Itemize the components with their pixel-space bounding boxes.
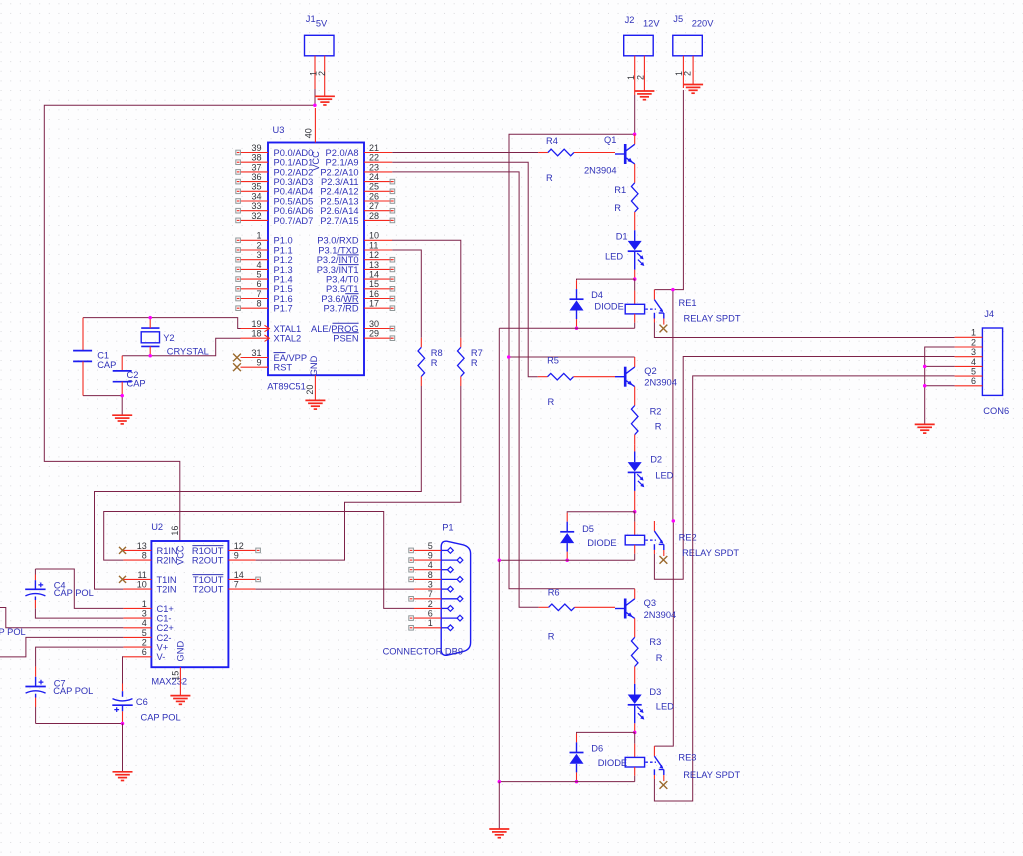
svg-text:C6: C6: [136, 697, 148, 707]
U2 pin 12 R1OUT: [192, 541, 261, 556]
wire node to diode D6: [577, 732, 635, 752]
svg-text:2: 2: [971, 337, 976, 347]
LED D3: [628, 695, 645, 720]
svg-text:7: 7: [234, 580, 239, 590]
svg-text:RE2: RE2: [679, 533, 697, 543]
U2 pin 4 C2+: [123, 618, 173, 633]
U3 pin 6 P1.5: [236, 279, 293, 294]
U3 pin 25 P2.4/A12: [320, 182, 394, 197]
svg-text:20: 20: [305, 385, 315, 395]
svg-text:GND: GND: [176, 641, 186, 662]
svg-text:38: 38: [251, 153, 261, 163]
svg-text:6: 6: [256, 279, 261, 289]
svg-text:DIODE: DIODE: [598, 758, 627, 768]
wire C4 bottom to C1-: [35, 608, 123, 618]
svg-text:12V: 12V: [643, 19, 660, 29]
svg-text:EA/VPP: EA/VPP: [274, 353, 308, 363]
wire 220V rail down to RE2/RE3 commons: [654, 290, 673, 746]
P1 pin 4: [409, 560, 454, 573]
svg-text:29: 29: [369, 329, 379, 339]
svg-text:Y2: Y2: [163, 333, 174, 343]
U3 pin 28 P2.7/A15: [320, 211, 394, 226]
svg-text:R2OUT: R2OUT: [192, 556, 224, 566]
label RE1: [679, 298, 741, 324]
svg-text:J1: J1: [306, 14, 316, 24]
svg-text:CAP: CAP: [127, 379, 146, 389]
resistor R4: [538, 136, 615, 183]
svg-text:5: 5: [971, 367, 976, 377]
svg-text:R3: R3: [649, 637, 661, 647]
svg-text:R2IN: R2IN: [157, 556, 178, 566]
svg-text:P0.2/AD2: P0.2/AD2: [274, 167, 314, 177]
ground at J1 pin 2: [315, 96, 335, 105]
U2 pin 2 V+: [123, 638, 168, 653]
svg-text:P2.2/A10: P2.2/A10: [320, 167, 358, 177]
wire R2 to D2: [634, 444, 636, 462]
ground at J4: [915, 424, 935, 433]
svg-text:P2.0/A8: P2.0/A8: [326, 148, 359, 158]
svg-text:4: 4: [142, 618, 147, 628]
svg-text:22: 22: [369, 153, 379, 163]
svg-text:PSEN: PSEN: [333, 334, 358, 344]
svg-text:RELAY SPDT: RELAY SPDT: [683, 770, 740, 780]
node XTAL2/Y2: [148, 354, 152, 358]
svg-text:14: 14: [234, 570, 244, 580]
svg-text:C1+: C1+: [157, 604, 174, 614]
U3 pin 39 P0.0/AD0: [236, 143, 313, 158]
node D3/coil junction: [633, 731, 637, 735]
J4 pin 2: [955, 337, 983, 347]
svg-text:R: R: [614, 203, 621, 213]
svg-text:RST: RST: [274, 363, 293, 373]
wire gnd rail to bottom ground: [498, 782, 500, 829]
relay RE3 coil: [625, 757, 656, 767]
svg-text:3: 3: [256, 250, 261, 260]
resistor R5: [538, 356, 615, 408]
LED D2: [628, 462, 645, 487]
svg-text:Q2: Q2: [644, 366, 656, 376]
svg-text:15: 15: [171, 671, 181, 681]
U3 pin 32 P0.7/AD7: [236, 211, 313, 226]
op-amp U3 AT89C51 body: [267, 125, 364, 391]
wire P2.2/A10 to R6: [392, 172, 538, 607]
svg-text:V+: V+: [157, 643, 169, 653]
svg-text:25: 25: [369, 182, 379, 192]
U3 pin 22 P2.1/A9: [326, 153, 393, 168]
U2 pin 6 V-: [123, 647, 165, 662]
svg-text:P0.6/AD6: P0.6/AD6: [274, 206, 314, 216]
svg-text:P1.2: P1.2: [274, 255, 293, 265]
svg-text:D1: D1: [616, 232, 628, 242]
relay RE2 switch: [654, 521, 663, 556]
U2 pin 16 VCC: [170, 526, 180, 536]
U2 pin 7 T2OUT: [193, 580, 256, 595]
svg-text:R: R: [655, 421, 662, 431]
svg-text:6: 6: [971, 376, 976, 386]
svg-text:P2.4/A12: P2.4/A12: [320, 187, 358, 197]
node C2 ground junction: [120, 394, 124, 398]
U2 pin 10 T2IN: [123, 580, 176, 595]
node D5 anode junction: [565, 559, 569, 563]
wire DB9 pin2 to U2 R2IN: [104, 512, 414, 609]
P1 pin 5: [409, 541, 454, 554]
U3 pin 18 XTAL2: [241, 329, 302, 344]
svg-text:CON6: CON6: [983, 406, 1009, 416]
label D3: [649, 687, 674, 712]
svg-text:R: R: [548, 397, 555, 407]
wire J5 220V down to relay commons: [654, 90, 683, 290]
svg-text:8: 8: [142, 551, 147, 561]
resistor R2: [631, 406, 638, 445]
svg-text:RELAY SPDT: RELAY SPDT: [682, 548, 739, 558]
U2 pin 3 C1-: [123, 609, 171, 624]
svg-text:8: 8: [428, 570, 433, 580]
P1 pin 8: [409, 570, 463, 583]
capacitor C4: [25, 569, 94, 608]
wire TXD net U3 pin11 to R8: [392, 250, 421, 338]
svg-text:5: 5: [142, 628, 147, 638]
svg-text:36: 36: [251, 172, 261, 182]
resistor R3: [631, 637, 638, 676]
capacitor C5 label fragment: [0, 627, 26, 637]
wire coil RE3 top pin: [634, 732, 636, 757]
U3 pin 17 P3.7/RD: [323, 299, 394, 314]
svg-text:U3: U3: [273, 125, 285, 135]
U3 pin 14 P3.4/T0: [326, 270, 395, 285]
svg-text:8: 8: [256, 299, 261, 309]
U2 pin 13 R1IN: [119, 541, 178, 556]
U2 pin 15 GND: [171, 667, 181, 695]
P1 pin 2: [414, 599, 453, 612]
P1 pin 9: [409, 551, 463, 564]
wire V- to C6: [122, 657, 125, 684]
svg-text:3: 3: [428, 580, 433, 590]
wire TXD to U2 T2IN: [95, 386, 422, 589]
U3 pin 30 ALE/PROG: [311, 319, 395, 334]
svg-text:P2.1/A9: P2.1/A9: [326, 158, 359, 168]
connector P1 DB9 body: [383, 523, 471, 657]
svg-text:XTAL1: XTAL1: [274, 324, 302, 334]
wire V+ to C7: [36, 647, 124, 667]
label D2: [650, 455, 673, 481]
svg-text:11: 11: [137, 570, 146, 580]
P1 pin 6: [409, 609, 463, 622]
node D4 anode junction: [575, 327, 579, 331]
label D6: [591, 744, 627, 769]
P1 pin 1: [409, 618, 454, 631]
svg-text:33: 33: [251, 201, 261, 211]
svg-text:P1.6: P1.6: [274, 294, 293, 304]
svg-text:RE1: RE1: [679, 298, 697, 308]
svg-text:MAX232: MAX232: [151, 677, 187, 687]
node ground rail RE2: [498, 559, 502, 563]
svg-text:T2IN: T2IN: [157, 585, 177, 595]
svg-text:GND: GND: [309, 355, 319, 376]
svg-text:5: 5: [428, 541, 433, 551]
U3 pin 31 EA/VPP: [233, 348, 307, 363]
connector J4 CON6 body: [982, 309, 1009, 416]
LED D1: [628, 241, 645, 266]
svg-text:P0.5/AD5: P0.5/AD5: [274, 196, 314, 206]
svg-text:P0.1/AD1: P0.1/AD1: [274, 158, 314, 168]
wire Q2 emitter to R2: [634, 387, 636, 406]
connector J5: [673, 14, 714, 88]
label Q2: [644, 366, 677, 388]
svg-text:C2+: C2+: [157, 623, 174, 633]
svg-text:5: 5: [256, 270, 261, 280]
wire RE2 NO throw output: [654, 357, 954, 580]
capacitor C1: [73, 318, 116, 396]
svg-text:D2: D2: [650, 455, 662, 465]
node ground rail bottom: [498, 780, 502, 784]
svg-text:R6: R6: [548, 587, 560, 597]
svg-text:Q1: Q1: [604, 135, 616, 145]
svg-text:23: 23: [369, 162, 379, 172]
crystal Y2: [141, 318, 209, 357]
label R1: [614, 185, 626, 213]
wire coil RE3 bottom pin: [634, 767, 636, 782]
U3 pin 38 P0.1/AD1: [236, 153, 313, 168]
svg-text:24: 24: [369, 172, 379, 182]
U3 pin 5 P1.4: [236, 270, 293, 285]
svg-text:R5: R5: [547, 356, 559, 366]
svg-text:P3.7/RD: P3.7/RD: [323, 304, 358, 314]
U3 pin 40 VCC: [304, 108, 316, 143]
svg-text:C2-: C2-: [157, 633, 172, 643]
svg-text:P2.6/A14: P2.6/A14: [320, 206, 358, 216]
svg-text:P1: P1: [442, 523, 453, 533]
U3 pin 26 P2.5/A13: [320, 191, 394, 206]
svg-text:35: 35: [251, 182, 261, 192]
svg-text:D4: D4: [591, 290, 603, 300]
ground at crystal caps: [112, 415, 132, 424]
svg-text:P0.7/AD7: P0.7/AD7: [274, 216, 314, 226]
J4 pin 3: [955, 347, 983, 357]
svg-text:T1OUT: T1OUT: [193, 575, 224, 585]
wire J4 pins 2/4/6 to ground: [925, 347, 955, 424]
svg-text:12: 12: [234, 541, 244, 551]
U3 pin 37 P0.2/AD2: [236, 162, 313, 177]
node D2/coil junction: [633, 510, 637, 514]
wire D2 to relay coil node: [634, 473, 636, 512]
svg-text:C1-: C1-: [157, 614, 172, 624]
svg-text:2N3904: 2N3904: [644, 610, 677, 620]
svg-text:P POL: P POL: [0, 627, 26, 637]
node 12V at J2/Q1: [633, 133, 637, 137]
wire R1 to D1: [634, 222, 636, 241]
label Q1: [584, 135, 617, 176]
svg-text:CAP: CAP: [97, 360, 116, 370]
no-connect X at RE1 NC throw: [660, 325, 668, 333]
J4 pin 1: [955, 328, 983, 338]
svg-text:DIODE: DIODE: [594, 302, 623, 312]
svg-text:9: 9: [234, 551, 239, 561]
ground bottom center: [489, 829, 509, 838]
U3 pin 33 P0.6/AD6: [236, 201, 313, 216]
svg-text:1: 1: [142, 599, 147, 609]
svg-text:4: 4: [971, 357, 976, 367]
svg-text:28: 28: [369, 211, 379, 221]
no-connect X at RE3 NC throw: [660, 781, 668, 789]
node J4 pin6 tie: [923, 384, 927, 388]
svg-text:2: 2: [142, 638, 147, 648]
svg-text:P1.0: P1.0: [274, 236, 293, 246]
svg-text:P2.3/A11: P2.3/A11: [321, 177, 359, 187]
svg-text:2: 2: [317, 71, 327, 76]
wire diode D5 to bottom: [566, 543, 568, 560]
svg-text:2N3904: 2N3904: [644, 378, 677, 388]
wire Q1 emitter to R1: [634, 164, 636, 183]
wire RE2 coil return to ground rail: [499, 559, 634, 561]
U3 pin 20 GND: [305, 375, 316, 400]
svg-text:26: 26: [369, 191, 379, 201]
label RE2: [679, 533, 740, 558]
svg-text:2: 2: [683, 71, 693, 76]
connector J1: [305, 14, 335, 106]
node D6 anode junction: [575, 780, 579, 784]
svg-text:2: 2: [635, 75, 645, 80]
svg-text:16: 16: [369, 289, 379, 299]
wire C2+ to off-page cap: [0, 608, 123, 628]
svg-text:2: 2: [428, 599, 433, 609]
J4 pin 5: [955, 367, 983, 377]
U3 pin 1 P1.0: [236, 231, 293, 246]
wire C1/C2 ground net: [83, 396, 122, 416]
wire T2OUT to DB9 pin3: [256, 588, 414, 590]
svg-text:5V: 5V: [316, 18, 328, 28]
label R2: [650, 407, 662, 432]
ground below C6: [113, 772, 133, 781]
U2 pin 9 R2OUT: [192, 551, 256, 566]
svg-text:D3: D3: [649, 687, 661, 697]
svg-text:9: 9: [428, 551, 433, 561]
J4 pin 4: [955, 357, 983, 367]
svg-text:3: 3: [971, 347, 976, 357]
svg-text:CAP POL: CAP POL: [141, 713, 181, 723]
svg-text:P3.3/INT1: P3.3/INT1: [317, 265, 359, 275]
svg-text:1: 1: [971, 328, 976, 338]
svg-text:27: 27: [369, 201, 379, 211]
node XTAL1/Y2: [148, 316, 152, 320]
wire diode D6 to bottom: [576, 764, 578, 782]
node D1/coil junction: [633, 277, 637, 281]
svg-text:P2.5/A13: P2.5/A13: [320, 196, 358, 206]
capacitor C2: [113, 356, 146, 396]
relay RE1 switch: [654, 290, 663, 325]
capacitor C6: [112, 684, 180, 724]
svg-text:V-: V-: [157, 652, 166, 662]
wire C2- to off-page cap: [0, 637, 123, 657]
wire R3 to D3: [634, 676, 636, 695]
svg-text:R8: R8: [431, 348, 443, 358]
svg-text:11: 11: [369, 240, 378, 250]
svg-text:P1.7: P1.7: [274, 304, 293, 314]
wire Q3 emitter to R3: [634, 618, 636, 637]
svg-text:Q3: Q3: [644, 598, 656, 608]
U2 pin 1 C1+: [123, 599, 173, 614]
wire RE3 NO throw output: [654, 376, 954, 801]
svg-text:U2: U2: [151, 522, 163, 532]
svg-text:40: 40: [304, 128, 314, 138]
wire Q3 collector pin: [634, 589, 636, 599]
wire node to diode D5: [567, 512, 635, 532]
svg-text:DIODE: DIODE: [587, 538, 616, 548]
svg-text:7: 7: [428, 589, 433, 599]
svg-text:39: 39: [251, 143, 261, 153]
J4 pin 6: [955, 376, 983, 386]
wire Q1 collector pin: [634, 134, 636, 144]
node J4 pin4 tie: [923, 365, 927, 369]
relay RE3 switch: [654, 746, 663, 781]
transistor Q3 2N3904: [615, 599, 635, 619]
label R3: [649, 637, 662, 663]
relay RE2 coil: [625, 535, 656, 545]
svg-text:LED: LED: [655, 471, 673, 481]
diode D6: [570, 753, 584, 764]
wire RE1 coil return to ground rail: [499, 327, 634, 329]
label D5: [582, 524, 617, 548]
svg-text:R2: R2: [650, 407, 662, 417]
svg-text:13: 13: [137, 541, 147, 551]
svg-text:15: 15: [369, 279, 379, 289]
U3 pin 27 P2.6/A14: [320, 201, 394, 216]
svg-text:7: 7: [256, 289, 261, 299]
svg-text:T1IN: T1IN: [157, 575, 177, 585]
svg-text:R: R: [431, 358, 438, 368]
diode D5: [560, 532, 574, 543]
svg-text:31: 31: [251, 348, 261, 358]
U3 pin 16 P3.6/WR: [321, 289, 394, 304]
wire coil RE2 top pin: [634, 512, 636, 536]
op-amp U2 MAX232 body: [151, 522, 228, 686]
svg-text:R1: R1: [614, 185, 626, 195]
svg-text:RE3: RE3: [678, 753, 696, 763]
node 220V at RE1 common: [671, 288, 675, 292]
svg-text:P0.4/AD4: P0.4/AD4: [274, 187, 314, 197]
svg-text:P0.3/AD3: P0.3/AD3: [274, 177, 314, 187]
svg-text:CAP POL: CAP POL: [54, 588, 94, 598]
svg-text:P3.6/WR: P3.6/WR: [321, 294, 358, 304]
svg-text:6: 6: [428, 609, 433, 619]
P1 pin 3: [414, 580, 453, 593]
svg-text:4: 4: [256, 260, 261, 270]
wire C1+ to C4 top: [35, 569, 123, 608]
label D4: [591, 290, 624, 312]
label Q3: [644, 598, 677, 620]
svg-text:P3.0/RXD: P3.0/RXD: [317, 236, 359, 246]
label D1: [605, 232, 628, 262]
U3 pin 15 P3.5/T1: [326, 279, 395, 294]
resistor R6: [539, 587, 615, 641]
wire diode D4 to bottom: [576, 311, 578, 329]
U2 pin 11 T1IN: [119, 570, 177, 585]
svg-text:J5: J5: [673, 14, 683, 24]
U3 pin 23 P2.2/A10: [320, 162, 392, 177]
svg-text:220V: 220V: [692, 19, 715, 29]
svg-text:12: 12: [369, 250, 379, 260]
wire node to diode D4: [577, 279, 635, 299]
wire P2.0/A8 to R4: [392, 152, 538, 154]
svg-text:10: 10: [369, 231, 379, 241]
svg-text:R: R: [548, 631, 555, 641]
svg-text:21: 21: [369, 143, 379, 153]
wire C7 bottom to C6 bottom: [36, 723, 123, 725]
wire D3 to relay coil node: [634, 705, 636, 732]
node 12V at Q2 branch: [507, 355, 511, 359]
svg-text:16: 16: [170, 526, 180, 536]
wire RXD net U3 pin10 to R7: [392, 240, 461, 337]
svg-text:J4: J4: [984, 309, 994, 319]
